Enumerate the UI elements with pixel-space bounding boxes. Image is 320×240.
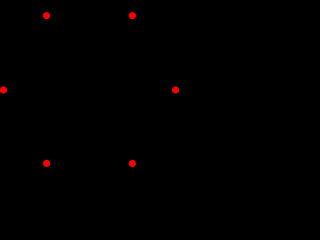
edge 2-5 (top-right to bottom-left)	[47, 16, 133, 164]
edge 2-4 (top-right to right)	[132, 16, 175, 90]
edge 3-6 (left to bottom-right)	[4, 90, 133, 164]
edge 1-3 (top-left to left)	[4, 16, 47, 90]
edge 4-6 (right to bottom-right)	[132, 90, 175, 164]
node 1 (top-left)	[43, 12, 50, 19]
edge 2-6 (top-right to bottom-right)	[131, 16, 133, 164]
node 3 (left)	[0, 86, 7, 93]
node 5 (bottom-left)	[43, 160, 50, 167]
edge 3-5 (left to bottom-left)	[4, 90, 47, 163]
node 2 (top-right)	[129, 12, 136, 19]
edge 1-6 (top-left to bottom-right)	[47, 16, 133, 164]
edge 1-5 (top-left to bottom-left)	[46, 16, 48, 164]
edge 5-6 (bottom-left to bottom-right)	[47, 162, 133, 164]
edge 1-4 (top-left to right)	[47, 16, 176, 90]
edge 3-4 (left to right)	[4, 89, 176, 91]
node 4 (right)	[172, 86, 179, 93]
node 6 (bottom-right)	[129, 160, 136, 167]
edge 1-2 (top-left to top-right)	[47, 15, 133, 17]
edge 2-3 (top-right to left)	[4, 16, 133, 90]
edge 4-5 (right to bottom-left)	[47, 90, 176, 163]
